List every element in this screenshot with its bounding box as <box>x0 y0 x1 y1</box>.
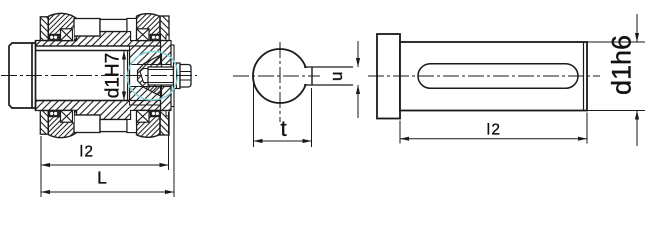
svg-text:t: t <box>280 116 286 141</box>
svg-text:l2: l2 <box>487 122 502 139</box>
svg-text:d1h6: d1h6 <box>607 35 637 95</box>
svg-text:l2: l2 <box>80 144 95 161</box>
svg-text:L: L <box>97 168 107 188</box>
svg-text:u: u <box>327 72 346 81</box>
